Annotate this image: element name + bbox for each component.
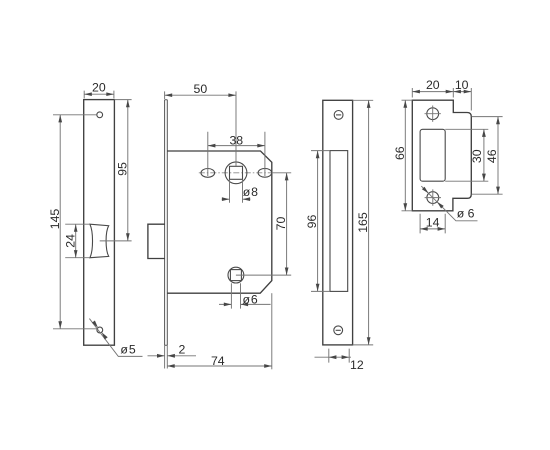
- svg-text:165: 165: [356, 212, 370, 233]
- dim 50 ext lines: [165, 91, 236, 166]
- dim 50 arrows: [165, 93, 173, 97]
- dim 145 ext top: [53, 114, 97, 116]
- svg-text:14: 14: [426, 215, 440, 229]
- dim 38 arrows: [208, 144, 216, 148]
- dim 50 line: [165, 94, 236, 96]
- svg-text:10: 10: [455, 78, 469, 92]
- screw slot bottom: [336, 329, 341, 331]
- dim 46 arrows: [496, 117, 500, 125]
- faceplate edge-on double line: [165, 100, 168, 345]
- svg-text:96: 96: [305, 215, 319, 229]
- dim 20 line: [84, 93, 114, 95]
- key hole: [228, 267, 244, 283]
- dim 74 arrows: [167, 364, 175, 368]
- dia5 leader: [89, 319, 142, 357]
- svg-text:145: 145: [48, 209, 62, 230]
- dim 10 ext line: [470, 88, 472, 111]
- dim 66 ext lines: [402, 100, 413, 211]
- svg-text:70: 70: [274, 217, 288, 231]
- dim 20 arrows: [412, 90, 420, 94]
- dim 96 arrows: [316, 151, 320, 159]
- dia6 arrows: [422, 187, 429, 194]
- screw slot top: [336, 114, 341, 116]
- svg-text:ø 6: ø 6: [457, 207, 475, 221]
- dim 46 line: [497, 117, 499, 195]
- dim 66 line: [404, 100, 406, 211]
- dim 165 ext lines: [353, 100, 374, 345]
- dim 66 arrows: [403, 100, 407, 108]
- dim 165 arrows: [367, 100, 371, 108]
- dim 38 line: [208, 145, 265, 147]
- dim 20 ext lines: [412, 88, 453, 98]
- screw hole top cross: [425, 106, 441, 122]
- follower hole right: [258, 168, 272, 177]
- dim 74 line: [167, 365, 272, 367]
- dim 24 ext lines: [65, 224, 90, 258]
- svg-text:12: 12: [350, 358, 364, 372]
- svg-text:38: 38: [229, 133, 243, 147]
- dim 14 ext lines: [420, 214, 445, 234]
- dim 20 arrows: [84, 92, 92, 96]
- dim 10 arrows: [453, 90, 461, 94]
- dim 30 ext lines: [445, 129, 488, 181]
- dim 74 ext line: [271, 293, 273, 369]
- follower hole left: [201, 169, 215, 178]
- dia6 leader: [421, 186, 477, 221]
- latch bolt side: [148, 224, 165, 258]
- dim dia8 arrows: [222, 197, 230, 201]
- spindle square: [230, 166, 243, 179]
- svg-text:ø5: ø5: [120, 342, 136, 356]
- dim 12 arrows: [329, 355, 337, 359]
- dim dia6 line: [219, 303, 271, 305]
- strike plate outline: [412, 100, 471, 211]
- dim 70 arrows: [285, 173, 289, 181]
- dim 12 line: [315, 356, 352, 358]
- centre line through holes: [199, 172, 272, 174]
- dia5 arrows: [92, 321, 98, 328]
- screw hole top: [427, 108, 439, 120]
- dim 145 ext bottom: [53, 328, 97, 330]
- dim 95 arrows: [126, 100, 130, 108]
- dim 2 ext lines: [165, 345, 168, 368]
- dim 96 line: [317, 151, 319, 292]
- svg-text:74: 74: [211, 354, 225, 368]
- dim 20 line: [412, 91, 453, 93]
- screw hole bottom: [97, 327, 103, 333]
- dim 2 line: [148, 355, 197, 357]
- dim dia8 line: [222, 198, 251, 200]
- spindle hole: [225, 162, 247, 184]
- latch opening: [420, 129, 445, 181]
- body edge-on: [330, 151, 348, 292]
- dim 145 line: [59, 115, 61, 329]
- dim 46 ext lines: [472, 117, 503, 195]
- dim 70 ext lines: [236, 173, 291, 275]
- svg-text:ø8: ø8: [243, 185, 259, 199]
- dim 95 line: [127, 100, 129, 241]
- dim 96 ext lines: [311, 151, 330, 292]
- screw hole top: [97, 112, 103, 118]
- screw hole bottom cross: [425, 189, 441, 205]
- dim 24 arrows: [74, 224, 78, 232]
- svg-text:46: 46: [485, 149, 499, 163]
- screw hole bottom: [427, 192, 439, 204]
- dim 24 line: [75, 224, 77, 258]
- key hole square: [230, 270, 241, 281]
- dim 14 line: [420, 228, 445, 230]
- svg-text:95: 95: [115, 162, 129, 176]
- lock body outline: [167, 151, 272, 293]
- dim 14 arrows: [420, 227, 428, 231]
- dim dia8 ext lines: [230, 180, 243, 203]
- dim 12 ext lines: [329, 349, 349, 363]
- dim 20 ext lines: [84, 91, 114, 99]
- screw hole top slotted: [334, 111, 343, 120]
- svg-text:30: 30: [470, 149, 484, 163]
- screw hole bottom slotted: [334, 326, 343, 335]
- svg-text:20: 20: [92, 81, 106, 95]
- dim 30 line: [483, 129, 485, 181]
- dim dia6 ext lines: [231, 283, 240, 308]
- dim 165 line: [368, 100, 370, 345]
- svg-text:ø6: ø6: [243, 292, 259, 306]
- svg-text:66: 66: [393, 146, 407, 160]
- dim 30 arrows: [482, 129, 486, 137]
- svg-text:50: 50: [194, 82, 208, 96]
- side plate: [323, 100, 353, 345]
- svg-text:24: 24: [63, 234, 77, 248]
- dim 95 ext top: [114, 99, 131, 101]
- svg-text:20: 20: [426, 78, 440, 92]
- dim 70 line: [286, 173, 288, 275]
- svg-text:2: 2: [178, 343, 185, 357]
- latch bolt front: [90, 224, 109, 258]
- faceplate plate: [84, 100, 115, 346]
- latch centre leader: [100, 240, 132, 242]
- dim dia6 arrows: [224, 303, 232, 307]
- dim 38 ext lines: [208, 132, 265, 176]
- dim 2 arrows: [157, 354, 165, 358]
- dim 145 arrows: [58, 115, 62, 123]
- dim 10 line: [453, 91, 471, 93]
